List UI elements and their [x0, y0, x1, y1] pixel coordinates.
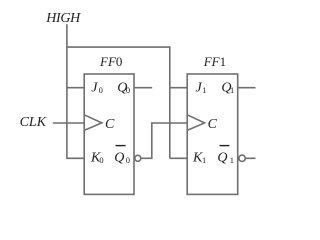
- svg-text:Q: Q: [114, 151, 124, 166]
- svg-text:CLK: CLK: [20, 115, 47, 130]
- svg-text:Q: Q: [217, 151, 227, 166]
- svg-text:1: 1: [202, 85, 206, 95]
- svg-text:1: 1: [202, 155, 206, 165]
- svg-text:C: C: [208, 117, 218, 132]
- svg-text:FF0: FF0: [99, 54, 122, 69]
- svg-text:0: 0: [126, 85, 130, 95]
- svg-text:HIGH: HIGH: [45, 11, 81, 26]
- svg-text:C: C: [105, 117, 115, 132]
- svg-text:FF1: FF1: [203, 54, 226, 69]
- svg-text:0: 0: [126, 155, 130, 165]
- svg-text:0: 0: [99, 155, 103, 165]
- svg-text:0: 0: [99, 85, 103, 95]
- svg-text:1: 1: [230, 155, 234, 165]
- svg-text:J: J: [91, 81, 98, 96]
- svg-text:1: 1: [230, 85, 234, 95]
